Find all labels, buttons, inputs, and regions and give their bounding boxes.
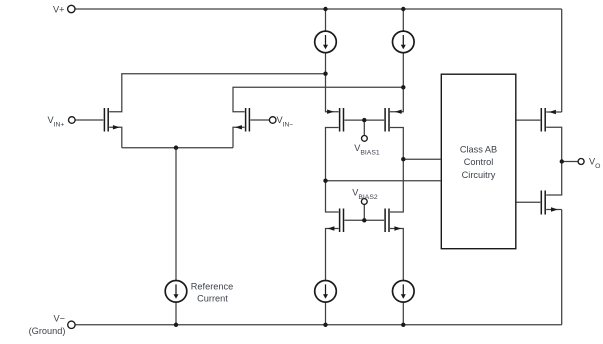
wire I4 to V- rail bbox=[402, 302, 404, 325]
wire Q1 source to tail bbox=[109, 127, 122, 147]
terminal V+ bbox=[68, 5, 75, 12]
wire I1 top lead bbox=[325, 9, 327, 31]
svg-text:V+: V+ bbox=[53, 4, 65, 14]
transistor Q8 channel bar bbox=[544, 191, 546, 215]
current source IREF (Reference Current) circle bbox=[165, 281, 187, 303]
wire node A to Class AB box bbox=[403, 158, 440, 160]
node dot X2 bbox=[401, 85, 405, 89]
node dot VBIAS2 gate node bbox=[362, 218, 366, 222]
node dot bottom rail ref bbox=[174, 323, 178, 327]
node dot top rail x1 bbox=[323, 7, 327, 11]
node dot VBIAS1 gate node bbox=[362, 118, 366, 122]
Class AB Control Circuitry box U1 bbox=[441, 74, 516, 249]
svg-text:BIAS2: BIAS2 bbox=[358, 194, 377, 201]
wire Q4 drain down right column to Q6 drain bbox=[390, 128, 403, 213]
wire I1 bottom lead to node X1 bbox=[325, 53, 327, 74]
current source I3 arrow bbox=[325, 284, 327, 295]
transistor Q5 (cascode NMOS left) channel bar bbox=[339, 209, 341, 233]
node dot B bbox=[323, 179, 327, 183]
current source IREF arrow bbox=[175, 284, 177, 295]
svg-text:Control: Control bbox=[464, 157, 494, 167]
current source I3 circle bbox=[315, 281, 337, 303]
wire I2 bottom lead to node X2 bbox=[402, 53, 404, 88]
wire Q7 source lead bbox=[546, 111, 562, 113]
current source I2 circle bbox=[393, 31, 415, 53]
transistor Q7 source arrow bbox=[549, 110, 556, 114]
svg-text:(Ground): (Ground) bbox=[29, 326, 66, 336]
wire Q7 drain to output node bbox=[546, 127, 562, 161]
wire V+ rail right drop to Q7 source bbox=[561, 9, 563, 112]
wire V- rail bbox=[75, 324, 561, 326]
wire tail down to reference current bbox=[175, 148, 177, 281]
transistor Q4 (cascode PMOS right) gate bar bbox=[384, 108, 386, 132]
current source I4 arrow bbox=[402, 284, 404, 295]
wire VBIAS1 terminal stub bbox=[363, 120, 365, 135]
wire output node to VO terminal bbox=[562, 161, 578, 163]
transistor Q8 (output NMOS) gate bar bbox=[540, 191, 542, 215]
wire Q2 drain up and across to node X2 bbox=[233, 87, 403, 112]
transistor Q3 source arrow bbox=[327, 110, 334, 114]
node dot output bbox=[560, 159, 564, 163]
transistor Q6 source arrow bbox=[394, 226, 401, 230]
wire Q2 source to tail bbox=[233, 127, 245, 147]
transistor Q5 gate bar bbox=[343, 209, 345, 233]
svg-text:IN−: IN− bbox=[283, 121, 294, 128]
transistor Q2 (input NMOS, VIN-) channel bar bbox=[245, 108, 247, 132]
current source I1 arrow bbox=[325, 35, 327, 46]
wire Q8 source to V- rail bbox=[546, 209, 562, 211]
transistor Q6 channel bar bbox=[388, 209, 390, 233]
svg-text:BIAS1: BIAS1 bbox=[360, 150, 379, 157]
terminal VIN- bbox=[269, 117, 276, 124]
current source I4 circle bbox=[393, 281, 415, 303]
svg-text:Reference: Reference bbox=[191, 282, 233, 292]
transistor Q1 channel bar bbox=[107, 108, 109, 132]
wire Q4 source lead from node X2 bbox=[390, 87, 403, 111]
wire VBIAS2 terminal stub bbox=[363, 204, 365, 220]
node dot X1 bbox=[323, 72, 327, 76]
wire I3 to V- rail bbox=[325, 302, 327, 325]
transistor Q6 (cascode NMOS right) gate bar bbox=[384, 209, 386, 233]
transistor Q5 source arrow bbox=[328, 226, 335, 230]
node dot bottom rail x1 bbox=[323, 323, 327, 327]
wire Q3 source lead from node X1 bbox=[326, 74, 339, 112]
current source I1 circle bbox=[315, 31, 337, 53]
transistor Q3 (cascode PMOS left) channel bar bbox=[339, 108, 341, 132]
transistor Q4 channel bar bbox=[388, 108, 390, 132]
wire Q6 source down to I4 bbox=[390, 229, 403, 281]
wire Q8 drain to output node bbox=[546, 162, 562, 196]
svg-text:Current: Current bbox=[197, 294, 228, 304]
terminal VIN+ bbox=[69, 117, 76, 124]
terminal V- bbox=[68, 321, 75, 328]
terminal VO bbox=[578, 159, 584, 165]
wire Q3 drain down left column to Q5 drain bbox=[326, 128, 339, 213]
current source I2 arrow bbox=[402, 35, 404, 46]
transistor Q7 (output PMOS) gate bar bbox=[540, 108, 542, 132]
wire tail horizontal bbox=[122, 147, 233, 149]
wire I2 top lead bbox=[402, 9, 404, 31]
transistor Q3 gate bar bbox=[343, 108, 345, 132]
wire box to Q7 gate bbox=[516, 119, 541, 121]
wire VIN- gate lead bbox=[250, 119, 269, 121]
wire VBIAS1 gate rail bbox=[345, 119, 385, 121]
svg-text:Class AB: Class AB bbox=[460, 145, 497, 155]
wire box to Q8 gate bbox=[516, 201, 541, 203]
transistor Q7 channel bar bbox=[544, 108, 546, 132]
wire reference current to V- rail bbox=[175, 302, 177, 325]
node dot bottom rail x2 bbox=[401, 323, 405, 327]
transistor Q1 (input NMOS, VIN+) gate bar bbox=[103, 108, 105, 132]
svg-text:IN+: IN+ bbox=[54, 121, 65, 128]
transistor Q4 source arrow bbox=[395, 110, 402, 114]
wire V+ rail bbox=[75, 8, 562, 10]
node dot A bbox=[401, 157, 405, 161]
svg-text:V−: V− bbox=[54, 314, 66, 324]
wire V- rail right rise to Q8 source bbox=[561, 210, 563, 325]
terminal VBIAS1 bbox=[362, 136, 368, 142]
transistor Q2 gate bar bbox=[248, 108, 250, 132]
svg-text:O: O bbox=[595, 163, 600, 170]
wire VIN+ gate lead bbox=[75, 119, 103, 121]
node dot top rail x2 bbox=[401, 7, 405, 11]
wire Q1 drain up and across to node X1 bbox=[109, 74, 325, 112]
wire VBIAS2 gate rail bbox=[345, 219, 385, 221]
wire node B to Class AB box bbox=[326, 180, 441, 182]
transistor Q8 source arrow bbox=[551, 207, 558, 211]
svg-text:Circuitry: Circuitry bbox=[462, 170, 496, 180]
transistor Q1 source arrow bbox=[113, 125, 120, 129]
node dot tail bbox=[174, 146, 178, 150]
terminal VBIAS2 bbox=[361, 199, 367, 205]
wire Q5 source down to I3 bbox=[326, 229, 339, 281]
transistor Q2 source arrow bbox=[235, 125, 242, 129]
